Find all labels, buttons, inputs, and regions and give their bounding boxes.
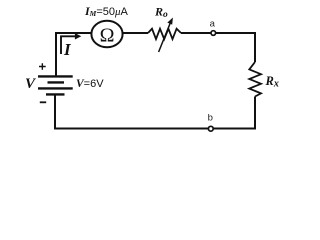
node a terminal circle	[211, 31, 216, 36]
svg-text:a: a	[210, 19, 216, 30]
wire: node b to bottom-left corner, up to battery minus plate	[55, 95, 209, 129]
rheostat R0 zigzag	[148, 29, 181, 39]
minus sign	[40, 101, 46, 103]
battery plate 3 long	[38, 87, 73, 89]
wire: Rx bottom to bottom-right corner to node b	[213, 97, 255, 129]
node b terminal circle	[208, 126, 213, 131]
wire: R0 to node a	[181, 32, 211, 34]
svg-text:V=6V: V=6V	[76, 78, 104, 90]
current arrow I at top-left	[61, 36, 78, 54]
battery plate 4 short (negative)	[46, 93, 65, 95]
battery plate 2 short	[48, 81, 65, 83]
rheostat arrow through R0	[159, 22, 171, 52]
svg-text:b: b	[208, 113, 213, 124]
wire: meter to R0	[123, 32, 149, 34]
ammeter/galvanometer circle U1	[91, 21, 122, 48]
svg-text:Ω: Ω	[100, 25, 115, 47]
plus sign	[39, 63, 46, 69]
resistor Rx zigzag	[249, 62, 261, 97]
wire: top-left corner to meter	[56, 33, 92, 76]
battery V plate 1 long (positive)	[38, 75, 73, 77]
wire: node a to top-right corner, down to Rx	[215, 33, 255, 62]
